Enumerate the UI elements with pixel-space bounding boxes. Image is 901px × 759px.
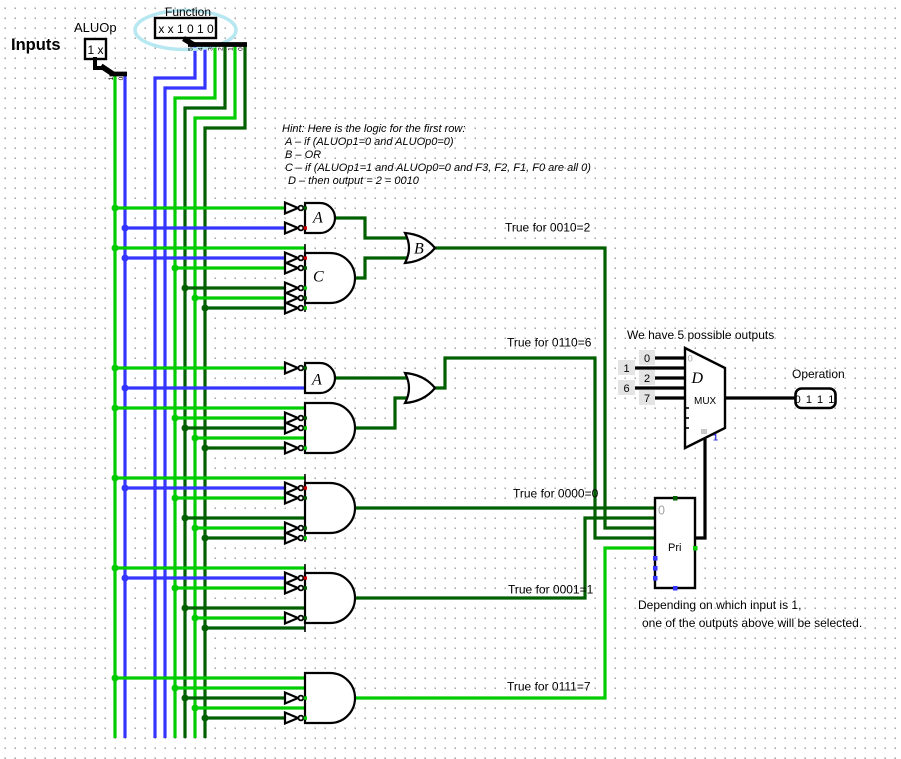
- wire row1 gate A input2 from ALUOp0: [125, 226, 285, 229]
- wire row4 AND input2 from ALUOp0: [125, 576, 285, 579]
- svg-text:ALUOp: ALUOp: [74, 20, 117, 35]
- svg-text:Depending on which input is 1,: Depending on which input is 1,: [638, 598, 801, 612]
- junction ALUOp0 row2 A: [122, 385, 129, 392]
- inverter row3 AND input5 (NOT F1): [285, 523, 303, 534]
- AND gate A row2: [305, 363, 335, 393]
- wire row2 gate A input1 from ALUOp1: [115, 366, 285, 369]
- svg-text:True for 0110=6: True for 0110=6: [507, 336, 592, 350]
- wire row2 AND input4 from F1: [195, 436, 305, 439]
- inverter row4 AND input3 (NOT F3): [285, 583, 303, 594]
- svg-text:Inputs: Inputs: [11, 36, 61, 54]
- junction F2 row5 AND: [182, 695, 189, 702]
- wire row1 gate C output to OR B input2: [355, 258, 409, 278]
- junction F0 row5 AND: [202, 715, 209, 722]
- junction F2 row3 AND: [182, 515, 189, 522]
- junction F0 row2 AND: [202, 445, 209, 452]
- inverter row5 AND input3 (NOT F2): [285, 693, 303, 704]
- constant 1 (to MUX input 1): [618, 360, 635, 375]
- svg-text:Operation: Operation: [792, 367, 845, 381]
- inverter row4 AND input5 (NOT F1): [285, 613, 303, 624]
- svg-text:True for 0010=2: True for 0010=2: [505, 221, 591, 235]
- junction F2 row2 AND: [182, 425, 189, 432]
- AND gate row2 (5 inputs): [305, 403, 355, 453]
- svg-text:0: 0: [658, 504, 665, 518]
- wire row5 AND input1 from ALUOp1: [115, 676, 305, 679]
- input pin Function: [155, 18, 216, 38]
- svg-text:MUX: MUX: [694, 396, 717, 407]
- wire row4 AND output to priority encoder input1: [355, 518, 655, 598]
- wire row3 AND input1 from ALUOp1: [115, 476, 305, 479]
- junction ALUOp0 row1 C: [122, 255, 129, 262]
- svg-text:C – if (ALUOp1=1 and ALUOp0=0: C – if (ALUOp1=1 and ALUOp0=0 and F3, F2…: [285, 162, 591, 174]
- wire row1 gate A output to OR B input1: [335, 218, 409, 238]
- junction F3 row1 C: [172, 265, 179, 272]
- wire row1 gate C input3 from F3: [175, 266, 285, 269]
- input pin ALUOp: [85, 39, 106, 59]
- wire row1 gate A input1 from ALUOp1: [115, 206, 285, 209]
- wire MUX output to Operation pin: [725, 396, 795, 399]
- wire row4 AND input1 from ALUOp1: [115, 566, 305, 569]
- AND gate row5 (5 inputs): [305, 673, 355, 723]
- junction ALUOp1 row5 AND: [112, 675, 119, 682]
- svg-text:1: 1: [108, 76, 115, 80]
- svg-text:True for 0111=7: True for 0111=7: [507, 680, 591, 694]
- wire priority encoder output to MUX select: [695, 438, 705, 538]
- svg-text:1: 1: [713, 433, 718, 443]
- svg-text:Function: Function: [165, 5, 211, 19]
- svg-text:1 x: 1 x: [87, 43, 103, 57]
- wire row2 gate A input2 from ALUOp0: [125, 386, 305, 389]
- OR gate B row1: [405, 233, 435, 263]
- svg-text:A – if (ALUOp1=0 and ALUOp0=0): A – if (ALUOp1=0 and ALUOp0=0): [284, 136, 454, 148]
- inverter row1 C input2 (NOT ALUOp0): [285, 253, 303, 264]
- constant 7 (to MUX input 4): [639, 390, 655, 405]
- inverter row1 C input5 (NOT F1): [285, 293, 303, 304]
- wire row3 AND input6 from F0: [205, 536, 285, 539]
- svg-text:C: C: [313, 269, 324, 286]
- wire row1 gate C input1 from ALUOp1: [115, 246, 305, 249]
- OR gate row2: [405, 373, 435, 403]
- svg-text:one of the outputs above will: one of the outputs above will be selecte…: [642, 616, 862, 630]
- junction ALUOp0 row3 AND: [122, 485, 129, 492]
- junction F3 row5 AND: [172, 685, 179, 692]
- svg-text:True for 0001=1: True for 0001=1: [508, 583, 594, 597]
- junction ALUOp1 row2 A: [112, 365, 119, 372]
- inverter row1 A input2 (NOT ALUOp0): [285, 223, 303, 234]
- wire row3 AND input3 from F3: [175, 496, 285, 499]
- wire row5 AND input3 from F2: [185, 696, 285, 699]
- GATES: [285, 203, 435, 724]
- svg-text:1: 1: [623, 363, 629, 375]
- svg-text:Pri: Pri: [668, 542, 681, 554]
- wire row2 OR output to priority encoder input3: [435, 358, 655, 538]
- wire row3 AND input5 from F1: [195, 526, 285, 529]
- wire row2 AND input2 from F3: [175, 416, 285, 419]
- wire row1 gate C input2 from ALUOp0: [125, 256, 285, 259]
- AND gate C row1 (6 inputs): [305, 244, 355, 312]
- wire row2 AND input5 from F0: [205, 446, 285, 449]
- junction F0 row3 AND: [202, 535, 209, 542]
- inverter row1 A input1 (NOT ALUOp1): [285, 203, 303, 214]
- splitter ALUOp (2-bit): [95, 57, 127, 80]
- svg-text:2: 2: [218, 47, 225, 51]
- wire row4 AND input6 from F0: [205, 626, 305, 629]
- wire Function bit3 (1) staircase + trunk: [175, 46, 215, 738]
- constant 0 (to MUX input 0): [639, 350, 655, 365]
- wire row1 gate C input6 from F0: [205, 306, 285, 309]
- junction F1 row2 AND: [192, 435, 199, 442]
- wire row1 OR B output to priority encoder input2: [435, 248, 655, 528]
- junction ALUOp1 row4 AND: [112, 565, 119, 572]
- output pin Operation: [795, 389, 836, 409]
- wire row2 AND input3 from F2: [185, 426, 285, 429]
- svg-text:0: 0: [238, 47, 245, 51]
- junction F0 row1 C: [202, 305, 209, 312]
- wire constant 2 to MUX input2: [655, 376, 685, 379]
- svg-text:x x 1 0 1 0: x x 1 0 1 0: [158, 22, 214, 36]
- junction F3 row3 AND: [172, 495, 179, 502]
- inverter row3 AND input3 (NOT F3): [285, 493, 303, 504]
- inverter row3 AND input6 (NOT F0): [285, 533, 303, 544]
- junction F2 row1 C: [182, 285, 189, 292]
- svg-text:4: 4: [198, 47, 205, 51]
- AND gate row4 (6 inputs): [305, 564, 355, 632]
- svg-text:7: 7: [644, 393, 650, 405]
- wire row5 AND input2 from F3: [175, 686, 305, 689]
- svg-text:3: 3: [208, 47, 215, 51]
- wire row4 AND input3 from F3: [175, 586, 285, 589]
- wire row2 gate A output to OR input1: [335, 376, 409, 379]
- inverter row1 C input3 (NOT F3): [285, 263, 303, 274]
- inverter row5 AND input5 (NOT F0): [285, 713, 303, 724]
- wire Function bit4 (x) staircase + trunk: [165, 46, 205, 738]
- wire Function bit1 (1) staircase + trunk: [195, 46, 235, 738]
- svg-text:A: A: [311, 372, 322, 389]
- junction ALUOp1 row2 AND: [112, 405, 119, 412]
- junction ALUOp0 row1 A: [122, 225, 129, 232]
- wire constant 7 to MUX input4: [655, 396, 685, 399]
- svg-text:True for 0000=0: True for 0000=0: [513, 487, 599, 501]
- inverter row1 C input6 (NOT F0): [285, 303, 303, 314]
- wire row1 gate C input4 from F2: [185, 286, 285, 289]
- wire ALUOp bit0 trunk (value x): [123, 73, 126, 738]
- wire row5 AND input4 from F1: [195, 706, 305, 709]
- priority encoder Pri: [653, 496, 698, 591]
- AND gate A row1: [305, 203, 335, 233]
- svg-text:Hint: Here is the logic for th: Hint: Here is the logic for the first ro…: [282, 123, 465, 135]
- svg-text:0: 0: [644, 353, 650, 365]
- inverter row2 AND input2 (NOT F3): [285, 413, 303, 424]
- annotation ellipse around Function pin: [135, 11, 236, 50]
- wire Function bit5 (x) staircase + trunk: [155, 46, 195, 738]
- junction F1 row4 AND: [192, 615, 199, 622]
- wire ALUOp bit1 trunk (value 1): [113, 73, 116, 738]
- wire row2 AND input1 from ALUOp1: [115, 406, 305, 409]
- svg-text:6: 6: [623, 383, 629, 395]
- svg-text:D: D: [691, 370, 704, 387]
- junction ALUOp0 row4 AND: [122, 575, 129, 582]
- junction F2 row4 AND: [182, 605, 189, 612]
- wire constant 6 to MUX input3: [634, 386, 685, 389]
- wire Function bit2 (0) staircase + trunk: [185, 46, 225, 738]
- svg-text:B – OR: B – OR: [285, 149, 321, 161]
- junction ALUOp1 row1 A: [112, 205, 119, 212]
- wire row5 AND output to priority encoder input4: [355, 548, 655, 698]
- junction F0 row4 AND: [202, 625, 209, 632]
- junction F3 row4 AND: [172, 585, 179, 592]
- inverter row3 AND input2 (NOT ALUOp0): [285, 483, 303, 494]
- inverter row4 AND input2 (NOT ALUOp0): [285, 573, 303, 584]
- wire row2 AND output to OR input2: [355, 398, 409, 428]
- junction F1 row1 C: [192, 295, 199, 302]
- wire row4 AND input5 from F1: [195, 616, 285, 619]
- constant 2 (to MUX input 2): [639, 370, 655, 385]
- wire constant 0 to MUX input0: [655, 356, 685, 359]
- svg-text:D – then output = 2 = 0010: D – then output = 2 = 0010: [288, 175, 420, 187]
- wire Function bit0 (0) staircase + trunk: [205, 46, 245, 738]
- wire row3 AND input2 from ALUOp0: [125, 486, 285, 489]
- inverter row2 AND input3 (NOT F2): [285, 423, 303, 434]
- junction ALUOp1 row1 C: [112, 245, 119, 252]
- wire row3 AND input4 from F2: [185, 516, 305, 519]
- wire constant 1 to MUX input1: [634, 366, 685, 369]
- inverter row1 C input4 (NOT F2): [285, 283, 303, 294]
- svg-text:0 1 1 1: 0 1 1 1: [795, 394, 836, 406]
- inverter row2 A input1 (NOT ALUOp1): [285, 363, 303, 374]
- constant 6 (to MUX input 3): [618, 380, 635, 395]
- svg-text:We have 5 possible outputs: We have 5 possible outputs: [627, 328, 774, 342]
- multiplexer D (MUX): [685, 348, 725, 448]
- wire row3 AND output to priority encoder input0: [355, 506, 655, 509]
- svg-text:2: 2: [644, 373, 650, 385]
- inverter output port dots: [304, 206, 307, 719]
- svg-text:1: 1: [228, 47, 235, 51]
- junction ALUOp1 row3 AND: [112, 475, 119, 482]
- junction F1 row5 AND: [192, 705, 199, 712]
- junction F3 row2 AND: [172, 415, 179, 422]
- wire row1 gate C input5 from F1: [195, 296, 285, 299]
- wire row4 AND input4 from F2: [185, 606, 305, 609]
- wire row5 AND input5 from F0: [205, 716, 285, 719]
- AND gate row3 (6 inputs): [305, 474, 355, 542]
- svg-text:0: 0: [688, 354, 693, 365]
- splitter Function (6-bit): [184, 37, 248, 51]
- svg-text:A: A: [312, 210, 323, 227]
- svg-text:5: 5: [188, 47, 195, 51]
- svg-text:0: 0: [118, 76, 125, 80]
- junction F1 row3 AND: [192, 525, 199, 532]
- inverter row2 AND input5 (NOT F0): [285, 443, 303, 454]
- svg-text:B: B: [414, 241, 424, 258]
